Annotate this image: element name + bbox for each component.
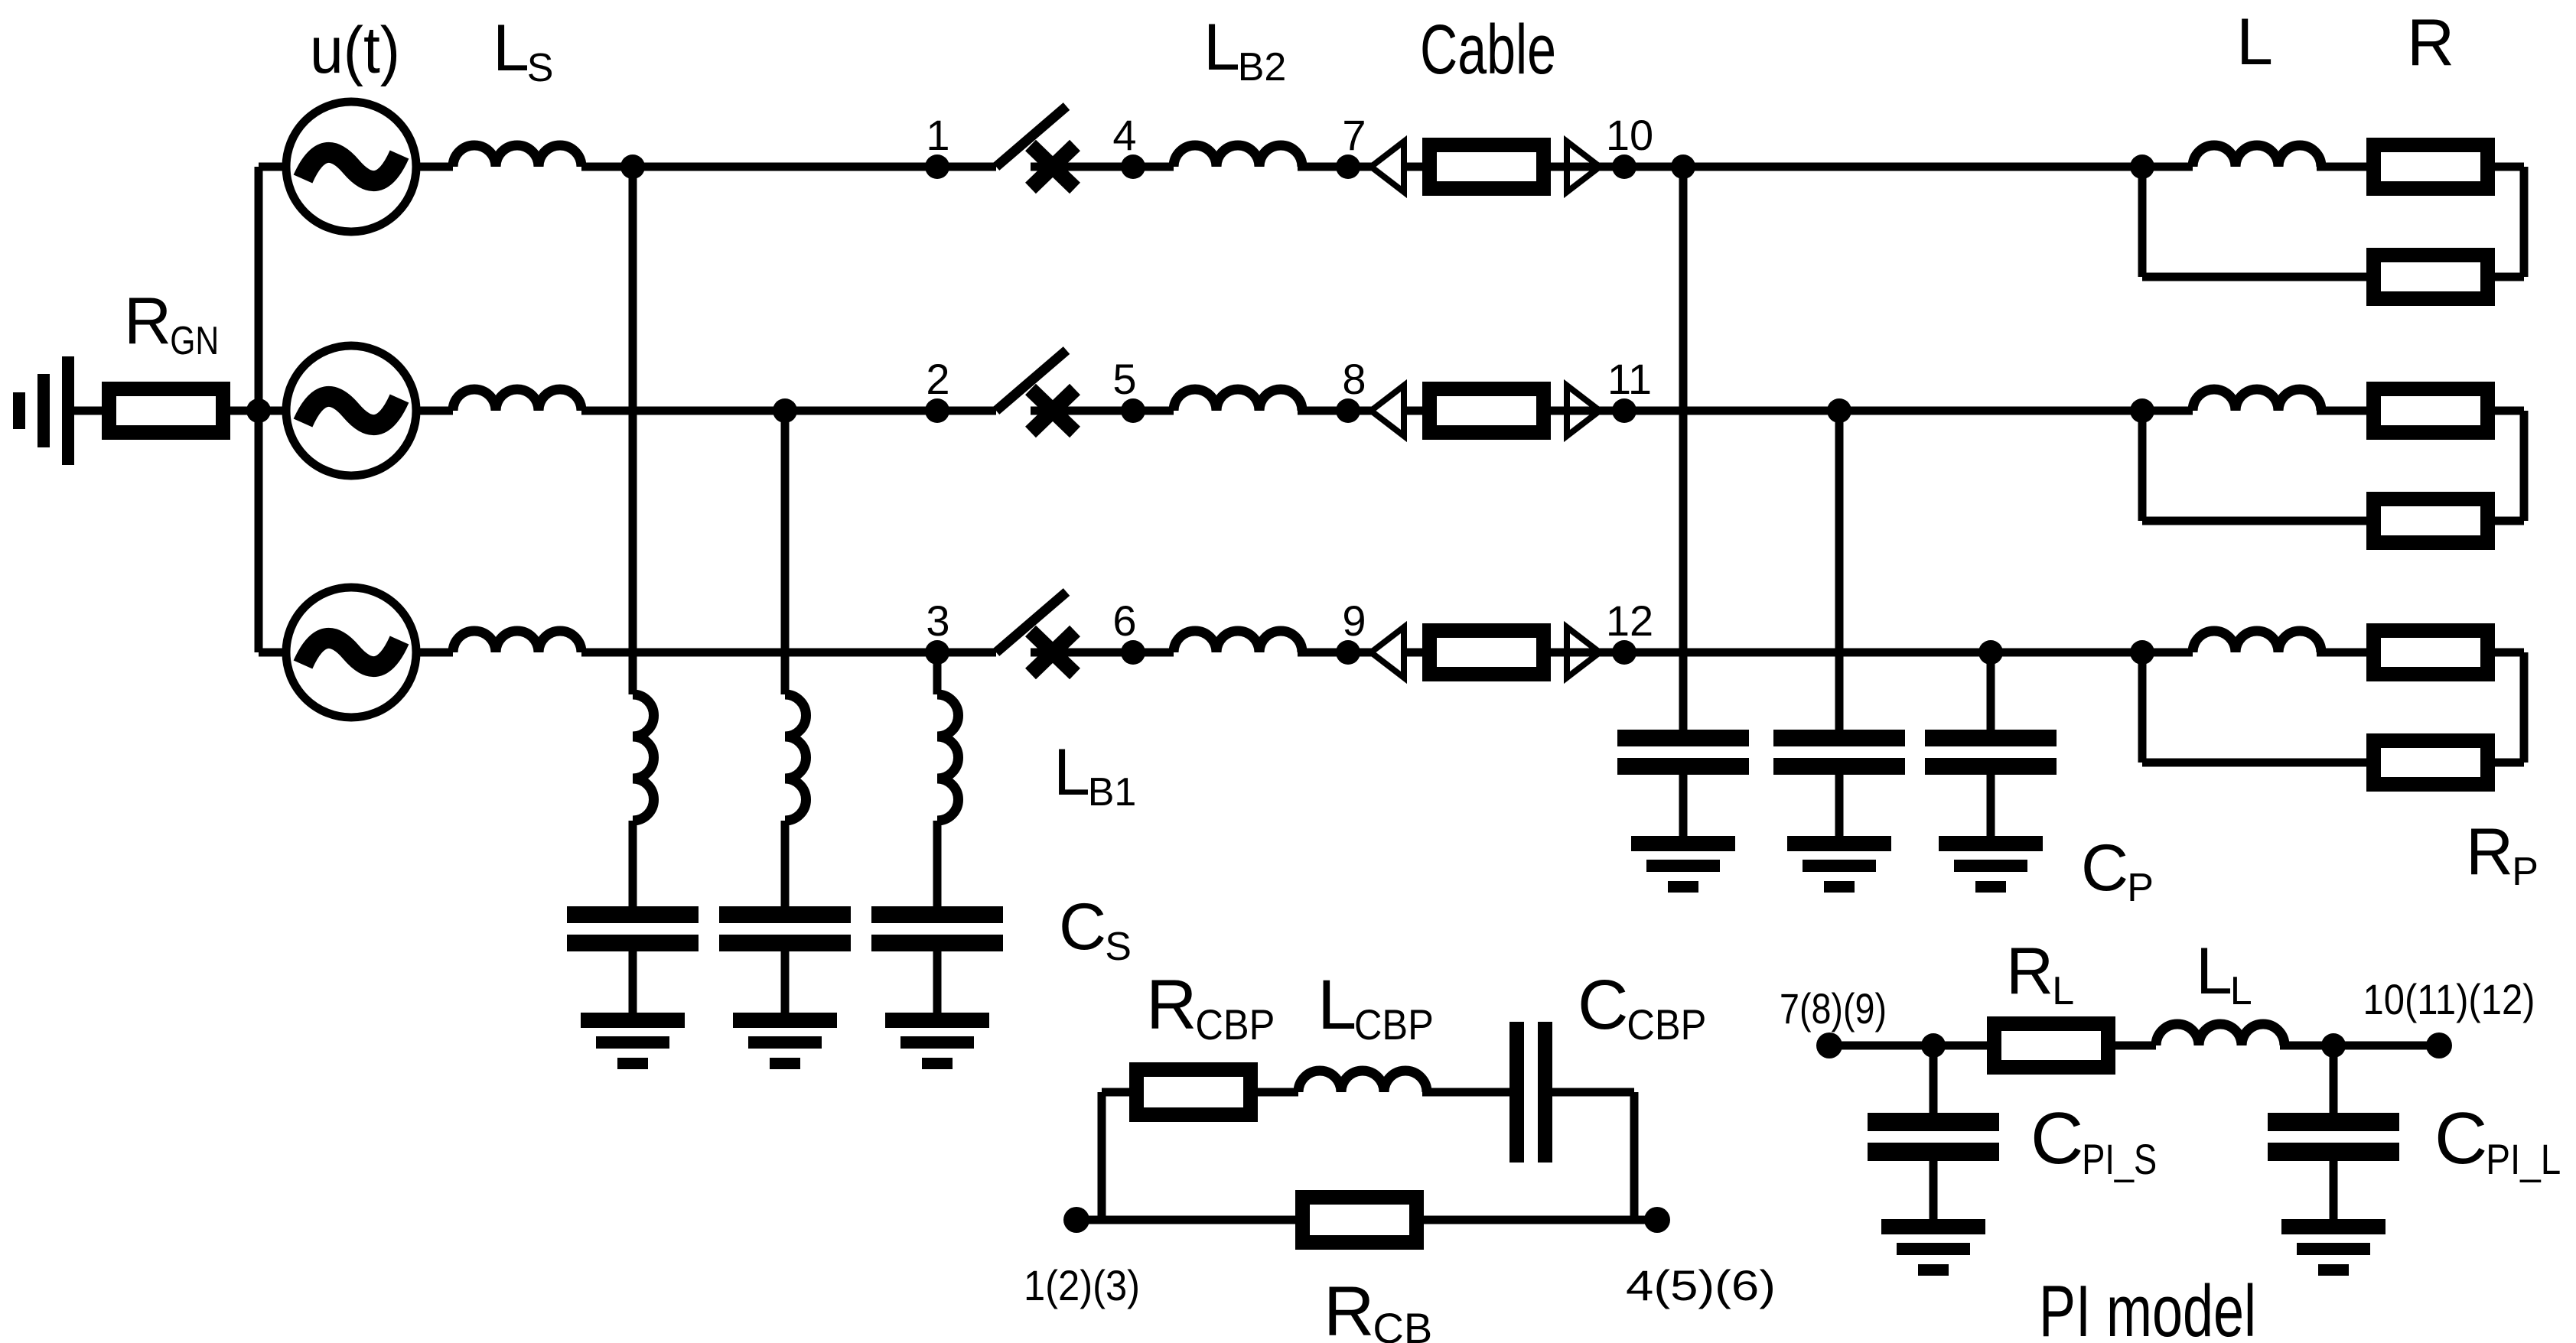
label node 1 xyxy=(926,111,949,159)
wire CP drop 2 xyxy=(1835,411,1844,734)
svg-text:C: C xyxy=(1059,890,1106,964)
label CS xyxy=(1059,890,1132,969)
label node 6 xyxy=(1112,597,1136,645)
svg-text:5: 5 xyxy=(1112,355,1136,403)
node 7 xyxy=(1336,154,1360,179)
node junction CP 1 xyxy=(1671,154,1695,179)
svg-text:C: C xyxy=(2434,1097,2487,1179)
svg-text:PI_L: PI_L xyxy=(2486,1135,2561,1183)
switch blade phase 3 xyxy=(996,592,1067,652)
capacitor CS phase 1 xyxy=(567,906,699,951)
wire CP to ground 3 xyxy=(1987,775,1995,841)
label LB1 xyxy=(1054,736,1136,815)
label RCBP xyxy=(1146,966,1275,1049)
wire RCBP to LCBP xyxy=(1258,1088,1298,1097)
wire bus to source U1 xyxy=(259,163,286,171)
wire bus to source U2 xyxy=(259,407,286,415)
node 8 xyxy=(1336,398,1360,423)
wire CP to ground 1 xyxy=(1679,775,1688,841)
label RL xyxy=(2006,935,2074,1013)
label PI model xyxy=(2039,1270,2256,1343)
wire LCBP to CCBP xyxy=(1422,1088,1509,1097)
svg-text:6: 6 xyxy=(1112,597,1136,645)
svg-text:R: R xyxy=(2466,815,2513,889)
capacitor CP phase 1 xyxy=(1617,730,1749,775)
wire lower right stub 3 xyxy=(2494,759,2524,767)
svg-text:u(t): u(t) xyxy=(310,14,400,87)
voltage source U2 u(t) xyxy=(286,346,416,476)
terminal node 7(8)(9) xyxy=(1816,1032,1842,1058)
wire lower left stub 1 xyxy=(2142,273,2366,281)
svg-text:R: R xyxy=(1146,966,1197,1044)
terminal node 10(11)(12) xyxy=(2426,1032,2452,1058)
capacitor CP phase 2 xyxy=(1773,730,1905,775)
svg-text:9: 9 xyxy=(1342,597,1366,645)
wire LS to switch phase 3 xyxy=(581,649,996,657)
wire right vert 1 xyxy=(2520,167,2529,277)
node 10 xyxy=(1612,154,1636,179)
ground below CP 1 xyxy=(1631,836,1735,893)
label L xyxy=(2236,5,2273,79)
node junction row1 shunt xyxy=(620,154,645,179)
svg-text:S: S xyxy=(527,46,554,90)
label node 2 xyxy=(926,355,949,403)
svg-text:2: 2 xyxy=(926,355,949,403)
label Cable xyxy=(1420,11,1556,89)
cable body phase 1 xyxy=(1430,145,1544,189)
svg-text:R: R xyxy=(1324,1273,1374,1343)
node 11 xyxy=(1612,398,1636,423)
resistor RCB xyxy=(1303,1198,1417,1243)
inductor LL xyxy=(2156,1024,2285,1045)
capacitor CCBP xyxy=(1509,1022,1552,1163)
svg-text:7(8)(9): 7(8)(9) xyxy=(1780,984,1887,1032)
wire CP to ground 2 xyxy=(1835,775,1844,841)
inductor LB1 phase 1 xyxy=(633,694,654,821)
svg-text:7: 7 xyxy=(1342,111,1366,159)
terminal node 4(5)(6) xyxy=(1644,1207,1670,1233)
label LS xyxy=(493,11,553,90)
wire ground to RGN xyxy=(74,407,102,415)
wire lower left stub 3 xyxy=(2142,759,2366,767)
svg-text:CBP: CBP xyxy=(1627,1000,1706,1049)
wire bus to source U3 xyxy=(259,649,286,657)
voltage source U1 u(t) xyxy=(286,102,416,232)
ground below CS 2 xyxy=(733,1013,837,1069)
svg-text:L: L xyxy=(2236,5,2273,79)
label node 4 xyxy=(1112,111,1136,159)
label LB2 xyxy=(1203,11,1286,89)
wire right vert 2 xyxy=(2520,411,2529,521)
resistor RP phase 1 xyxy=(2374,255,2488,299)
node 3 xyxy=(925,640,949,665)
node 12 xyxy=(1612,640,1636,665)
svg-text:12: 12 xyxy=(1606,597,1653,645)
resistor RP phase 3 xyxy=(2374,741,2488,785)
wire source U1 to LS xyxy=(416,163,453,171)
svg-text:CB: CB xyxy=(1373,1304,1432,1343)
wire LL to right xyxy=(2280,1042,2439,1050)
svg-text:R: R xyxy=(2006,935,2053,1008)
node pi left junction xyxy=(1921,1033,1946,1058)
resistor RCBP xyxy=(1137,1070,1251,1115)
label R xyxy=(2407,6,2454,80)
capacitor CS phase 2 xyxy=(719,906,851,951)
svg-text:10(11)(12): 10(11)(12) xyxy=(2363,975,2535,1023)
label node 11 xyxy=(1607,355,1652,403)
wire L to R phase 1 xyxy=(2317,163,2366,171)
cable arrow right phase 3 xyxy=(1567,627,1600,678)
svg-text:GN: GN xyxy=(170,319,219,363)
wire right vert 3 xyxy=(2520,652,2529,763)
node load junction 3 xyxy=(2130,640,2154,665)
svg-text:CBP: CBP xyxy=(1354,1000,1434,1049)
svg-text:P: P xyxy=(2512,850,2539,894)
switch X mark phase 3 xyxy=(1031,631,1075,674)
wire LB1 to CS 3 xyxy=(933,821,942,910)
wire lower right stub 2 xyxy=(2494,517,2524,525)
capacitor CPIL xyxy=(2268,1113,2399,1161)
wire cable to node 10 xyxy=(1551,163,2193,171)
ground below CP 3 xyxy=(1939,836,2043,893)
switch blade phase 2 xyxy=(996,350,1067,411)
node 9 xyxy=(1336,640,1360,665)
cable arrow right phase 1 xyxy=(1567,141,1600,192)
inductor LS phase 1 xyxy=(453,145,581,167)
svg-text:B2: B2 xyxy=(1238,45,1287,89)
svg-text:P: P xyxy=(2127,866,2154,910)
label RCB xyxy=(1324,1273,1432,1343)
wire left vert to RCBP xyxy=(1102,1088,1129,1097)
node 1 xyxy=(925,154,949,179)
wire cable to node 11 xyxy=(1551,407,2193,415)
wire switch to node 6 xyxy=(1031,649,1174,657)
cable arrow right phase 2 xyxy=(1567,385,1600,436)
wire shunt drop 3 xyxy=(933,652,942,694)
node junction CP 2 xyxy=(1827,398,1851,423)
svg-text:11: 11 xyxy=(1607,355,1652,403)
wire LB2 to node 7 xyxy=(1298,163,1422,171)
svg-text:1: 1 xyxy=(926,111,949,159)
wire breaker bottom xyxy=(1076,1216,1657,1224)
node load junction 2 xyxy=(2130,398,2154,423)
wire shunt drop 2 xyxy=(781,411,790,694)
label RP xyxy=(2466,815,2539,894)
node 6 xyxy=(1121,640,1145,665)
inductor L phase 2 xyxy=(2193,389,2321,411)
wire CP drop 1 xyxy=(1679,167,1688,734)
ground below CPIS xyxy=(1881,1219,1985,1276)
inductor LS phase 2 xyxy=(453,389,581,411)
label CPIL xyxy=(2434,1097,2561,1183)
label LCBP xyxy=(1317,966,1434,1049)
inductor LB2 phase 1 xyxy=(1174,145,1302,167)
switch blade phase 1 xyxy=(996,106,1067,167)
wire source U2 to LS xyxy=(416,407,453,415)
wire R to right vert 3 xyxy=(2494,649,2524,657)
switch X mark phase 2 xyxy=(1031,389,1075,432)
wire CCBP to right vert xyxy=(1552,1088,1634,1097)
wire switch to node 5 xyxy=(1031,407,1174,415)
label node 9 xyxy=(1342,597,1366,645)
svg-text:L: L xyxy=(1054,736,1090,809)
svg-text:R: R xyxy=(2407,6,2454,80)
svg-text:1(2)(3): 1(2)(3) xyxy=(1024,1261,1140,1309)
resistor RP phase 2 xyxy=(2374,499,2488,543)
wire CPIL drop xyxy=(2330,1045,2338,1117)
svg-text:PI model: PI model xyxy=(2039,1270,2256,1343)
node 4 xyxy=(1121,154,1145,179)
wire LS to switch phase 1 xyxy=(581,163,996,171)
label node 8 xyxy=(1342,355,1366,403)
wire switch to node 4 xyxy=(1031,163,1174,171)
label node 5 xyxy=(1112,355,1136,403)
wire R to right vert 1 xyxy=(2494,163,2524,171)
wire source U3 to LS xyxy=(416,649,453,657)
cable body phase 2 xyxy=(1430,389,1544,433)
terminal node 1(2)(3) xyxy=(1063,1207,1089,1233)
inductor LB1 phase 2 xyxy=(785,694,806,821)
wire LB2 to node 9 xyxy=(1298,649,1422,657)
wire breaker right vert xyxy=(1630,1092,1639,1220)
resistor R phase 3 xyxy=(2374,631,2488,675)
wire RGN to neutral node xyxy=(230,407,259,415)
label node 7 xyxy=(1342,111,1366,159)
resistor R phase 2 xyxy=(2374,389,2488,433)
cable arrow left phase 2 xyxy=(1371,385,1404,436)
cable body phase 3 xyxy=(1430,631,1544,675)
wire left vert 3 xyxy=(2138,652,2147,763)
svg-text:10: 10 xyxy=(1606,111,1653,159)
svg-text:S: S xyxy=(1105,925,1132,969)
svg-text:8: 8 xyxy=(1342,355,1366,403)
wire shunt drop 1 xyxy=(629,167,637,694)
svg-text:CBP: CBP xyxy=(1195,1000,1275,1049)
node 2 xyxy=(925,398,949,423)
wire neutral bus xyxy=(255,167,263,652)
ground below CS 3 xyxy=(885,1013,989,1069)
wire L to R phase 2 xyxy=(2317,407,2366,415)
svg-text:L: L xyxy=(493,11,529,85)
label CPIS xyxy=(2031,1097,2157,1183)
label LL xyxy=(2196,935,2252,1013)
wire CPIS to ground xyxy=(1930,1161,1938,1224)
label node 12 xyxy=(1606,597,1653,645)
node 5 xyxy=(1121,398,1145,423)
svg-text:C: C xyxy=(2031,1097,2083,1179)
wire left vert 1 xyxy=(2138,167,2147,277)
svg-text:3: 3 xyxy=(926,597,949,645)
node pi right junction xyxy=(2321,1033,2346,1058)
wire breaker left vert xyxy=(1098,1092,1106,1220)
inductor L phase 1 xyxy=(2193,145,2321,167)
ground below CP 2 xyxy=(1787,836,1891,893)
resistor RL xyxy=(1995,1024,2109,1068)
label CP xyxy=(2081,831,2154,910)
svg-text:4: 4 xyxy=(1112,111,1136,159)
svg-text:L: L xyxy=(1317,966,1356,1044)
resistor R phase 1 xyxy=(2374,145,2488,189)
wire lower left stub 2 xyxy=(2142,517,2366,525)
node junction CP 3 xyxy=(1978,640,2003,665)
label terminal 7(8)(9) xyxy=(1780,984,1887,1032)
wire CPIL to ground xyxy=(2330,1161,2338,1224)
wire LB2 to node 8 xyxy=(1298,407,1422,415)
label u(t) xyxy=(310,14,400,87)
capacitor CPIS xyxy=(1868,1113,1999,1161)
svg-text:R: R xyxy=(124,285,171,358)
cable arrow left phase 1 xyxy=(1371,141,1404,192)
switch X mark phase 1 xyxy=(1031,145,1075,188)
label CCBP xyxy=(1578,966,1706,1049)
ground below CPIL xyxy=(2281,1219,2385,1276)
svg-text:C: C xyxy=(2081,831,2128,905)
resistor RGN xyxy=(109,389,223,433)
svg-text:L: L xyxy=(1203,11,1240,84)
voltage source U3 u(t) xyxy=(286,587,416,717)
inductor LB2 phase 3 xyxy=(1174,631,1302,652)
wire left vert 2 xyxy=(2138,411,2147,521)
ground below CS 1 xyxy=(581,1013,685,1069)
capacitor CP phase 3 xyxy=(1925,730,2057,775)
node junction row2 shunt xyxy=(773,398,797,423)
inductor LB1 phase 3 xyxy=(937,694,958,821)
label node 10 xyxy=(1606,111,1653,159)
wire LB1 to CS 2 xyxy=(781,821,790,910)
wire cable to node 12 xyxy=(1551,649,2193,657)
wire CS to ground 3 xyxy=(933,951,942,1017)
svg-text:4(5)(6): 4(5)(6) xyxy=(1626,1261,1776,1309)
inductor L phase 3 xyxy=(2193,631,2321,652)
inductor LCBP xyxy=(1298,1071,1427,1092)
inductor LB2 phase 2 xyxy=(1174,389,1302,411)
wire L to R phase 3 xyxy=(2317,649,2366,657)
wire CS to ground 2 xyxy=(781,951,790,1017)
wire CP drop 3 xyxy=(1987,652,1995,734)
svg-text:L: L xyxy=(2196,935,2232,1008)
wire RL to LL xyxy=(2115,1042,2156,1050)
svg-text:C: C xyxy=(1578,966,1628,1044)
wire CS to ground 1 xyxy=(629,951,637,1017)
label node 3 xyxy=(926,597,949,645)
wire LB1 to CS 1 xyxy=(629,821,637,910)
capacitor CS phase 3 xyxy=(871,906,1003,951)
wire R to right vert 2 xyxy=(2494,407,2524,415)
cable arrow left phase 3 xyxy=(1371,627,1404,678)
svg-text:Cable: Cable xyxy=(1420,11,1556,89)
label terminal 1(2)(3) xyxy=(1024,1261,1140,1309)
wire lower right stub 1 xyxy=(2494,273,2524,281)
wire LS to switch phase 2 xyxy=(581,407,996,415)
ground GN (system earth) xyxy=(13,356,74,465)
label terminal 4(5)(6) xyxy=(1626,1261,1776,1309)
inductor LS phase 3 xyxy=(453,631,581,652)
svg-text:B1: B1 xyxy=(1088,770,1137,815)
wire CPIS drop xyxy=(1930,1045,1938,1117)
svg-text:PI_S: PI_S xyxy=(2082,1135,2157,1183)
label terminal 10(11)(12) xyxy=(2363,975,2535,1023)
label RGN xyxy=(124,285,219,363)
node neutral junction xyxy=(246,398,271,423)
node load junction 1 xyxy=(2130,154,2154,179)
svg-text:L: L xyxy=(2230,969,2252,1013)
wire pi left xyxy=(1829,1042,1987,1050)
svg-text:L: L xyxy=(2052,969,2074,1013)
